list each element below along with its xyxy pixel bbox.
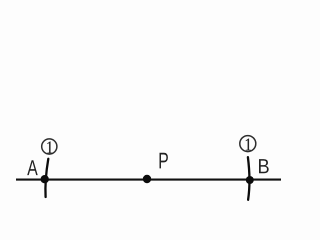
tick mark through B (248, 157, 250, 200)
node A dot (41, 175, 49, 183)
circled 1 above A : circle (42, 139, 57, 154)
circled 1 above B : circle (240, 136, 256, 152)
wire: horizontal line segment through A P B (16, 179, 281, 181)
label B (259, 159, 269, 173)
circled 1 above A : digit 1 (47, 142, 52, 154)
label P (160, 153, 168, 169)
tick mark through A (45, 159, 48, 197)
label A (27, 160, 37, 175)
node P dot (143, 175, 151, 183)
node B dot (246, 176, 254, 184)
circled 1 above B : digit 1 (246, 139, 251, 151)
